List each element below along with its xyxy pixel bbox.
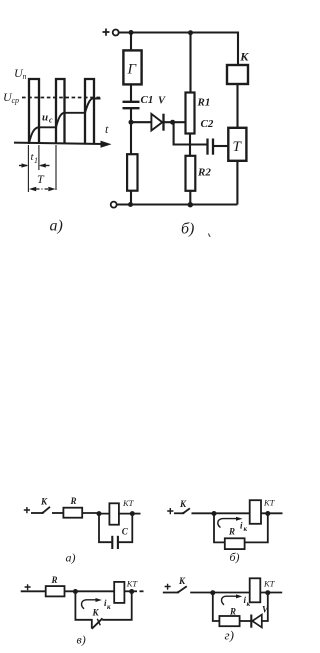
svg-text:КТ: КТ [126,578,139,588]
svg-text:п: п [23,72,27,81]
svg-text:R1: R1 [197,97,211,109]
svg-text:к: к [247,600,251,608]
svg-text:С2: С2 [201,118,214,130]
svg-text:КТ: КТ [263,497,276,507]
svg-text:ср: ср [12,96,20,105]
svg-text:б): б) [230,550,240,564]
svg-text:б): б) [181,221,194,238]
svg-text:в): в) [77,633,86,647]
svg-text:а): а) [66,551,76,565]
svg-text:Г: Г [127,62,138,78]
svg-text:к: к [107,603,111,611]
svg-text:г): г) [225,628,234,643]
svg-text:R: R [228,527,235,537]
svg-text:Т: Т [233,139,243,155]
svg-text:R: R [229,607,236,617]
svg-text:V: V [262,605,269,615]
svg-text:R: R [51,575,58,585]
svg-text:R: R [70,496,77,506]
svg-text:1: 1 [34,156,38,165]
svg-text:T: T [37,172,45,186]
svg-text:К: К [179,499,187,509]
svg-text:R2: R2 [197,167,211,179]
svg-text:а): а) [50,218,63,235]
svg-text:С: С [122,527,129,537]
svg-text:С1: С1 [141,94,154,106]
svg-text:К: К [178,576,186,586]
svg-text:u: u [42,112,48,124]
svg-text:К: К [92,608,100,618]
svg-text:К: К [40,497,48,507]
svg-text:к: к [244,525,248,533]
svg-text:c: c [49,116,53,125]
svg-text:t: t [105,122,109,136]
svg-text:V: V [158,96,166,107]
svg-text:КТ: КТ [122,498,135,508]
svg-text:К: К [239,50,249,64]
svg-text:КТ: КТ [263,579,276,589]
